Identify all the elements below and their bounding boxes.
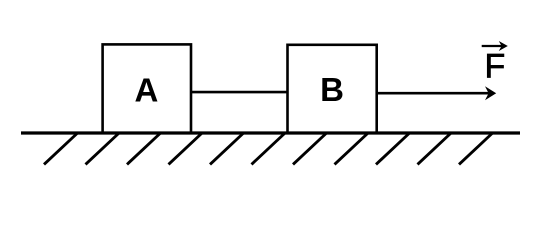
- svg-text:B: B: [320, 71, 344, 108]
- connecting rod between A and B: [190, 91, 288, 94]
- svg-text:A: A: [134, 72, 158, 109]
- ground hatching: [44, 134, 492, 165]
- applied force arrow on B: [377, 86, 496, 100]
- svg-text:F: F: [485, 48, 506, 86]
- ground surface line: [21, 131, 520, 134]
- vector arrow over F: [482, 41, 508, 51]
- block B: [288, 45, 377, 133]
- block A: [103, 44, 191, 132]
